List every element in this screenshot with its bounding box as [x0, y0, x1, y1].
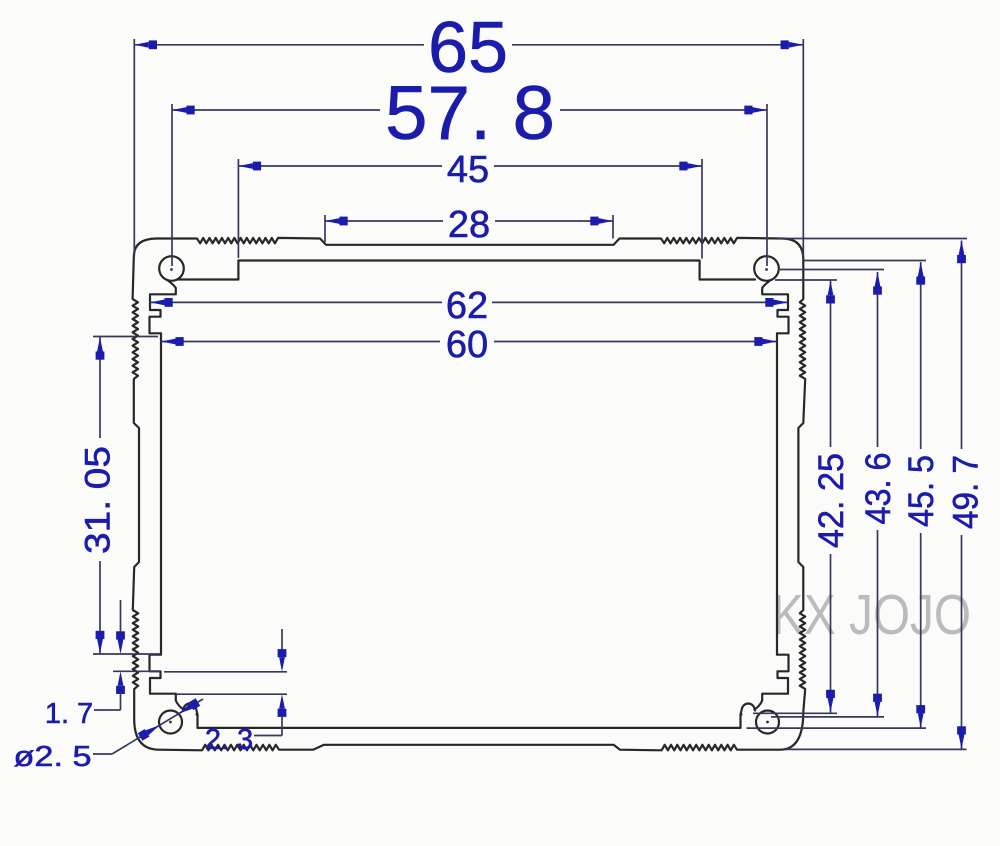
screw boss bottom-left: [159, 711, 182, 734]
screw boss top-right: [754, 256, 779, 281]
dim 62 arrows: [150, 300, 165, 306]
dim 65 line: [134, 44, 424, 46]
dim 2.3 line + arrows: [281, 629, 283, 650]
boss center dots: [170, 268, 173, 271]
bottom-right boss hump: [741, 704, 756, 715]
dim 45.5 arrows: [918, 262, 924, 277]
outer profile outline: [133, 238, 806, 750]
dim 57.8 line: [172, 109, 380, 111]
dim 42.25 arrows: [828, 281, 834, 296]
dim 1.7 extension line: [113, 670, 160, 672]
top-right lip and right inner wall and bottom-right lip: [755, 280, 789, 710]
dim 45 line: [238, 165, 442, 167]
dim 43.6 line: [877, 272, 879, 447]
dim 65 extension lines: [133, 39, 135, 257]
dim 60 line: [161, 341, 440, 343]
dim 43.6 extension lines: [780, 269, 884, 271]
svg-text:60: 60: [446, 324, 488, 366]
svg-text:62: 62: [446, 285, 488, 327]
dim 2.3 extension lines: [164, 671, 287, 673]
dim 28 line: [325, 220, 443, 222]
dim 1.7 line + arrows: [120, 600, 122, 632]
dim 28 extension lines: [324, 215, 326, 242]
dim 57.8 extension lines: [171, 104, 173, 266]
svg-text:31. 05: 31. 05: [79, 446, 118, 554]
svg-text:2. 3: 2. 3: [205, 724, 253, 756]
svg-text:43. 6: 43. 6: [859, 453, 898, 525]
dim 65 arrows: [134, 42, 149, 48]
inner ceiling: [178, 261, 755, 280]
screw boss top-left: [159, 256, 184, 281]
svg-text:1. 7: 1. 7: [45, 698, 93, 730]
svg-text:42. 25: 42. 25: [812, 453, 851, 548]
dim 45.5 extension lines: [803, 260, 926, 262]
dim 49.7 extension lines: [777, 238, 967, 240]
dim 57.8 arrows: [172, 107, 187, 113]
svg-text:45: 45: [447, 149, 489, 191]
svg-text:49. 7: 49. 7: [947, 455, 986, 529]
svg-text:28: 28: [448, 204, 490, 246]
svg-text:57. 8: 57. 8: [385, 71, 555, 156]
top-left lip and left inner wall and bottom-left lip: [150, 280, 184, 710]
inner floor: [197, 715, 742, 728]
dim 60 arrows: [161, 339, 176, 345]
dim 49.7 arrows: [959, 241, 965, 256]
dim 31.05 arrows: [97, 337, 103, 352]
dim dia2.5 arrows: [146, 725, 160, 735]
dim 42.25 extension lines: [775, 279, 837, 281]
dim 28 arrows: [325, 218, 340, 224]
dim 62 line: [150, 301, 442, 303]
dim 31.05 extension lines: [93, 336, 158, 338]
dim 1.7 leader: [94, 709, 121, 711]
dim 2.3 leader: [254, 735, 282, 737]
bottom-left boss hump: [183, 704, 198, 715]
dim 49.7 line: [961, 241, 963, 450]
dim dia2.5 leader: [93, 753, 112, 755]
screw boss bottom-right: [756, 711, 779, 734]
dim 45 extension lines: [237, 159, 239, 258]
dim 45.5 line: [920, 262, 922, 449]
dim 45 arrows: [238, 163, 253, 169]
svg-text:45. 5: 45. 5: [902, 455, 941, 527]
dim 43.6 arrows: [875, 272, 881, 287]
dim 42.25 line: [830, 281, 832, 447]
dim 31.05 line: [99, 337, 101, 439]
svg-text:ø2. 5: ø2. 5: [14, 741, 92, 773]
